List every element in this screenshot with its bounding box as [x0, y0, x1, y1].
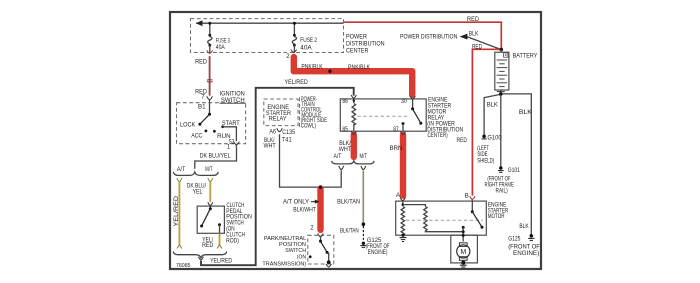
svg-text:SWITCH: SWITCH — [285, 248, 306, 254]
svg-text:(IN POWER: (IN POWER — [427, 121, 455, 127]
svg-text:DK BLU/YEL: DK BLU/YEL — [200, 154, 232, 160]
svg-text:MOTOR: MOTOR — [488, 214, 505, 220]
svg-text:RIGHT FRAME: RIGHT FRAME — [485, 182, 514, 188]
svg-text:2: 2 — [310, 226, 314, 232]
svg-text:BLK: BLK — [487, 102, 498, 108]
svg-text:76085: 76085 — [176, 263, 191, 269]
svg-text:YEL/RED: YEL/RED — [210, 259, 233, 265]
svg-text:M/T: M/T — [360, 154, 368, 160]
svg-text:A/T ONLY: A/T ONLY — [283, 200, 309, 206]
svg-text:FUSE 2: FUSE 2 — [300, 38, 317, 44]
svg-text:C135: C135 — [282, 130, 295, 136]
svg-text:ENGINE): ENGINE) — [368, 250, 388, 256]
svg-text:BATTERY: BATTERY — [513, 54, 538, 60]
svg-text:WHT: WHT — [264, 143, 276, 149]
svg-text:RELAY: RELAY — [269, 117, 287, 123]
svg-text:BLK: BLK — [469, 31, 479, 37]
svg-text:START: START — [222, 121, 240, 127]
svg-text:BRN: BRN — [390, 146, 403, 152]
svg-text:A/T: A/T — [334, 154, 342, 160]
svg-text:ROD): ROD) — [226, 238, 239, 244]
svg-text:G125: G125 — [508, 236, 521, 242]
svg-text:RAIL): RAIL) — [496, 188, 508, 194]
svg-text:85: 85 — [342, 127, 348, 133]
svg-text:G101: G101 — [508, 168, 521, 174]
svg-text:SHIELD): SHIELD) — [477, 159, 494, 165]
svg-text:ENGINE): ENGINE) — [513, 251, 539, 257]
svg-text:YEL: YEL — [193, 189, 204, 195]
svg-text:BLK: BLK — [519, 110, 532, 116]
svg-text:YEL/RED: YEL/RED — [285, 80, 309, 86]
svg-text:POWER DISTRIBUTION: POWER DISTRIBUTION — [400, 34, 457, 40]
svg-text:B: B — [465, 194, 469, 200]
svg-text:A6: A6 — [269, 130, 276, 136]
svg-text:M/T: M/T — [205, 167, 213, 173]
svg-text:86: 86 — [342, 99, 348, 105]
svg-text:ACC: ACC — [191, 133, 203, 139]
svg-text:2: 2 — [286, 54, 290, 60]
svg-text:M: M — [460, 249, 466, 256]
svg-text:30: 30 — [401, 99, 407, 105]
svg-text:(ON: (ON — [297, 255, 306, 261]
svg-text:PARK/NEUTRAL: PARK/NEUTRAL — [264, 236, 306, 242]
svg-text:BLK/TAN: BLK/TAN — [340, 229, 359, 235]
svg-text:B1: B1 — [198, 104, 206, 110]
svg-text:A: A — [396, 193, 400, 199]
svg-text:TRANSMISSION): TRANSMISSION) — [262, 261, 306, 267]
svg-text:BLK/WHT: BLK/WHT — [293, 208, 316, 214]
svg-text:YEL/RED: YEL/RED — [174, 195, 180, 226]
svg-text:40A: 40A — [300, 45, 311, 51]
svg-text:RED: RED — [457, 138, 468, 144]
svg-text:RED: RED — [195, 59, 208, 65]
svg-text:BLK/TAN: BLK/TAN — [337, 200, 360, 206]
svg-text:87: 87 — [393, 127, 399, 133]
svg-text:PNK/BLK: PNK/BLK — [348, 65, 370, 71]
svg-text:POSITION: POSITION — [279, 242, 306, 248]
svg-text:SIDE: SIDE — [477, 152, 488, 158]
svg-text:COWL): COWL) — [301, 124, 316, 130]
svg-text:LOCK: LOCK — [180, 122, 195, 128]
svg-text:CENTER: CENTER — [346, 48, 369, 54]
svg-text:T41: T41 — [282, 137, 293, 143]
svg-text:IGNITION: IGNITION — [220, 92, 245, 98]
svg-text:DISTRIBUTION: DISTRIBUTION — [346, 42, 385, 48]
svg-text:FUSE 3: FUSE 3 — [216, 39, 231, 45]
svg-text:(FRONT OF: (FRONT OF — [508, 245, 540, 251]
svg-text:WHT: WHT — [339, 147, 352, 153]
svg-text:A/T: A/T — [177, 167, 186, 173]
svg-text:RED: RED — [472, 44, 483, 50]
svg-text:RED: RED — [467, 17, 480, 23]
svg-text:BLK: BLK — [519, 224, 528, 230]
svg-text:G100: G100 — [487, 136, 502, 142]
svg-text:40A: 40A — [216, 45, 225, 51]
svg-text:CENTER): CENTER) — [428, 133, 448, 139]
svg-text:PNK/BLK: PNK/BLK — [301, 65, 322, 71]
svg-text:RED: RED — [202, 243, 214, 249]
svg-text:POWER: POWER — [346, 35, 368, 41]
